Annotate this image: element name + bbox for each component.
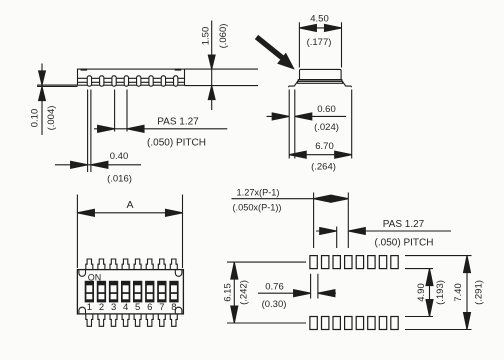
- front view corner notch bottom-right: [175, 307, 182, 313]
- side view pin 2: [100, 76, 104, 86]
- end view right gull-wing lead: [342, 81, 352, 87]
- svg-text:4.90: 4.90: [416, 283, 427, 302]
- front view bottom pin 6: [146, 314, 153, 326]
- side view pin 7: [161, 76, 165, 86]
- svg-text:6: 6: [147, 302, 152, 313]
- front view bottom pin 8: [170, 314, 177, 326]
- dim PAS 1.27 dimension line: [94, 128, 227, 130]
- dim 0.60 right line: [295, 115, 346, 117]
- dim 0.76 extension line b: [317, 274, 319, 299]
- switch 3 body: [109, 281, 118, 303]
- dim PAS 1.27 extension line a: [114, 90, 116, 132]
- dim 4.90 down arrow: [426, 300, 433, 317]
- dim 0.60 left line: [267, 115, 290, 117]
- front view top pin 3: [110, 259, 117, 270]
- dim 4.50 extension line right: [341, 22, 343, 67]
- dim 0.76 right-pointing arrow: [294, 290, 311, 297]
- dim 1.50 extension line bottom: [185, 85, 259, 87]
- front view bottom pin 7: [158, 314, 165, 326]
- front view corner notch bottom-left: [79, 307, 86, 313]
- dim 0.76 extension line a: [310, 274, 312, 299]
- switch 7 body: [157, 281, 166, 303]
- switch 4 body: [121, 281, 130, 303]
- front view top pin 8: [170, 259, 177, 270]
- front view corner notch top-right: [175, 270, 182, 276]
- land pattern bottom inner edge line: [405, 316, 433, 318]
- side view pin 8: [174, 76, 178, 86]
- side view top-left cover mark: [81, 69, 88, 71]
- dim 0.10 down arrow: [39, 71, 46, 85]
- front view top pin 7: [158, 259, 165, 270]
- svg-text:(.050x(P-1)): (.050x(P-1)): [232, 202, 281, 212]
- dim PAS 1.27 land left-pointing arrow: [348, 228, 365, 235]
- svg-text:5: 5: [135, 302, 140, 313]
- dim 1.50 vertical line: [211, 21, 213, 111]
- svg-text:1.50: 1.50: [200, 27, 211, 46]
- dim 1.50 down arrow: [208, 55, 215, 69]
- svg-text:0.40: 0.40: [110, 151, 129, 162]
- dim 1.27x(P-1) extension line left: [313, 193, 315, 249]
- dim 6.70 left-out arrow: [289, 151, 306, 158]
- svg-text:(.024): (.024): [314, 122, 339, 133]
- land pattern top inner edge line: [405, 268, 433, 270]
- svg-text:(.291): (.291): [473, 280, 484, 305]
- dim 1.27x(P-1) dimension line: [232, 198, 349, 200]
- svg-text:(.264): (.264): [311, 161, 336, 172]
- dim PAS 1.27 right-pointing arrow: [98, 125, 115, 132]
- side view top-right cover mark: [175, 69, 182, 71]
- switch 5 body: [133, 281, 142, 303]
- switch 2 body: [97, 281, 106, 303]
- svg-text:4.50: 4.50: [310, 13, 329, 24]
- svg-text:4: 4: [123, 302, 128, 313]
- end view base lower: [298, 81, 343, 83]
- dim 0.10 vertical line: [41, 64, 43, 136]
- switch position numbers: [87, 302, 177, 313]
- svg-text:0.10: 0.10: [30, 109, 41, 128]
- pointer arrow head: [277, 53, 295, 70]
- front view top pin 1: [86, 259, 93, 270]
- svg-text:1.27x(P-1): 1.27x(P-1): [237, 188, 280, 198]
- dim 6.15 up arrow: [231, 262, 238, 279]
- dim 6.15 bottom row centerline: [227, 322, 306, 324]
- seating plane line left: [37, 84, 78, 86]
- dim PAS 1.27 extension line b: [126, 90, 128, 132]
- side view pin 6: [149, 76, 153, 86]
- land pattern bottom pad row: [310, 317, 398, 330]
- dim A extension line left: [76, 195, 78, 269]
- front view bottom pin 2: [98, 314, 105, 326]
- dim 0.60 extension line b: [294, 90, 296, 159]
- dim 1.27x(P-1) left-out arrow: [314, 195, 331, 202]
- switch 8 body: [169, 281, 178, 303]
- dim A right-out arrow: [166, 209, 183, 216]
- front view bottom pin 5: [134, 314, 141, 326]
- side view pin 5: [137, 76, 141, 86]
- front view bottom pin 3: [110, 314, 117, 326]
- dim 4.50 extension line left: [298, 22, 300, 67]
- svg-text:(.050) PITCH: (.050) PITCH: [147, 137, 206, 148]
- svg-text:6.70: 6.70: [315, 141, 334, 152]
- switch 6 body: [145, 281, 154, 303]
- side view pin 3: [112, 76, 116, 86]
- land pattern bottom outer edge line: [405, 329, 472, 331]
- dim 6.15 top row centerline: [227, 261, 306, 263]
- svg-text:(.004): (.004): [46, 106, 57, 131]
- svg-text:6.15: 6.15: [223, 283, 234, 302]
- dim 1.50 extension line top: [185, 68, 259, 70]
- front view top pin 2: [98, 259, 105, 270]
- dim PAS 1.27 land dimension right line: [348, 230, 451, 232]
- land pattern top outer edge line: [405, 255, 472, 257]
- svg-text:(.050) PITCH: (.050) PITCH: [375, 237, 434, 248]
- svg-text:(.060): (.060): [218, 24, 229, 49]
- dim A extension line right: [182, 195, 184, 269]
- dim 6.70 right-out arrow: [335, 151, 352, 158]
- front view top pin 6: [146, 259, 153, 270]
- svg-text:A: A: [126, 199, 133, 211]
- pointer arrow shaft: [257, 37, 284, 58]
- dim 4.90 up arrow: [426, 269, 433, 286]
- end view left gull-wing lead: [288, 81, 298, 87]
- svg-text:(.016): (.016): [107, 173, 132, 184]
- dim 7.40 vertical line: [466, 256, 468, 330]
- pin standoff line left: [37, 85, 78, 87]
- front view top pin 5: [134, 259, 141, 270]
- dim 4.50 right-out arrow: [325, 24, 342, 31]
- dim 0.40 extension line b: [90, 90, 92, 173]
- svg-text:3: 3: [111, 302, 116, 313]
- dim 6.15 down arrow: [231, 306, 238, 323]
- dim 0.76 right line: [318, 292, 336, 294]
- dim 0.40 dimension line: [55, 164, 141, 166]
- end view base upper: [298, 80, 342, 82]
- dim 1.50 up arrow: [208, 86, 215, 100]
- land pattern top pad row: [310, 256, 398, 269]
- dim 1.27x(P-1) extension line right: [347, 193, 349, 249]
- svg-text:(.193): (.193): [435, 280, 446, 305]
- front view bottom pin 4: [122, 314, 129, 326]
- dim 7.40 down arrow: [464, 313, 471, 330]
- dim 4.90 vertical line: [429, 269, 431, 317]
- dim 4.50 dimension line: [299, 27, 341, 29]
- dim 1.27x(P-1) right-out arrow: [331, 195, 348, 202]
- dim 4.50 left-out arrow: [299, 24, 316, 31]
- end view cap: [300, 69, 342, 79]
- dim 6.15 vertical line: [233, 262, 235, 323]
- dim PAS 1.27 land extension line a: [336, 227, 338, 249]
- dim 0.76 left-pointing arrow: [318, 290, 335, 297]
- front view corner notch top-left: [79, 270, 86, 276]
- svg-text:7.40: 7.40: [453, 283, 464, 302]
- svg-text:(.242): (.242): [238, 280, 249, 305]
- dim 0.60 right-pointing arrow: [272, 113, 289, 120]
- dim PAS 1.27 left-pointing arrow: [127, 125, 144, 132]
- dim 0.40 extension line a: [87, 90, 89, 173]
- svg-text:2: 2: [99, 302, 104, 313]
- svg-text:1: 1: [87, 302, 92, 313]
- svg-text:8: 8: [171, 302, 176, 313]
- front view bottom pin 1: [86, 314, 93, 326]
- svg-text:0.60: 0.60: [317, 104, 336, 115]
- dim 0.40 left-pointing arrow: [91, 161, 108, 168]
- svg-text:PAS 1.27: PAS 1.27: [383, 219, 425, 230]
- switch 1 body: [85, 281, 94, 303]
- dim 0.10 up arrow: [39, 87, 46, 101]
- dim A left-out arrow: [77, 209, 94, 216]
- side view body outline: [78, 69, 185, 85]
- dim PAS 1.27 land dimension left line: [316, 230, 337, 232]
- dim 0.60 left-pointing arrow: [295, 113, 312, 120]
- dim 6.70 extension line right: [351, 90, 353, 159]
- svg-text:7: 7: [159, 302, 164, 313]
- dim 0.60 extension line a: [288, 90, 290, 159]
- dim 0.40 right-pointing arrow: [71, 161, 88, 168]
- dim 6.70 dimension line: [289, 154, 352, 156]
- svg-text:(0.30): (0.30): [262, 299, 287, 310]
- dim 7.40 up arrow: [464, 256, 471, 273]
- svg-text:(.177): (.177): [307, 37, 332, 48]
- dim A dimension line: [77, 212, 182, 214]
- dim PAS 1.27 land right-pointing arrow: [320, 228, 337, 235]
- side view pin 4: [124, 76, 128, 86]
- side view pin 1: [87, 76, 91, 86]
- dim 0.76 left line: [258, 292, 311, 294]
- front view top pin 4: [122, 259, 129, 270]
- svg-text:0.76: 0.76: [265, 281, 284, 292]
- front view body: [77, 270, 183, 314]
- svg-text:PAS 1.27: PAS 1.27: [157, 116, 199, 127]
